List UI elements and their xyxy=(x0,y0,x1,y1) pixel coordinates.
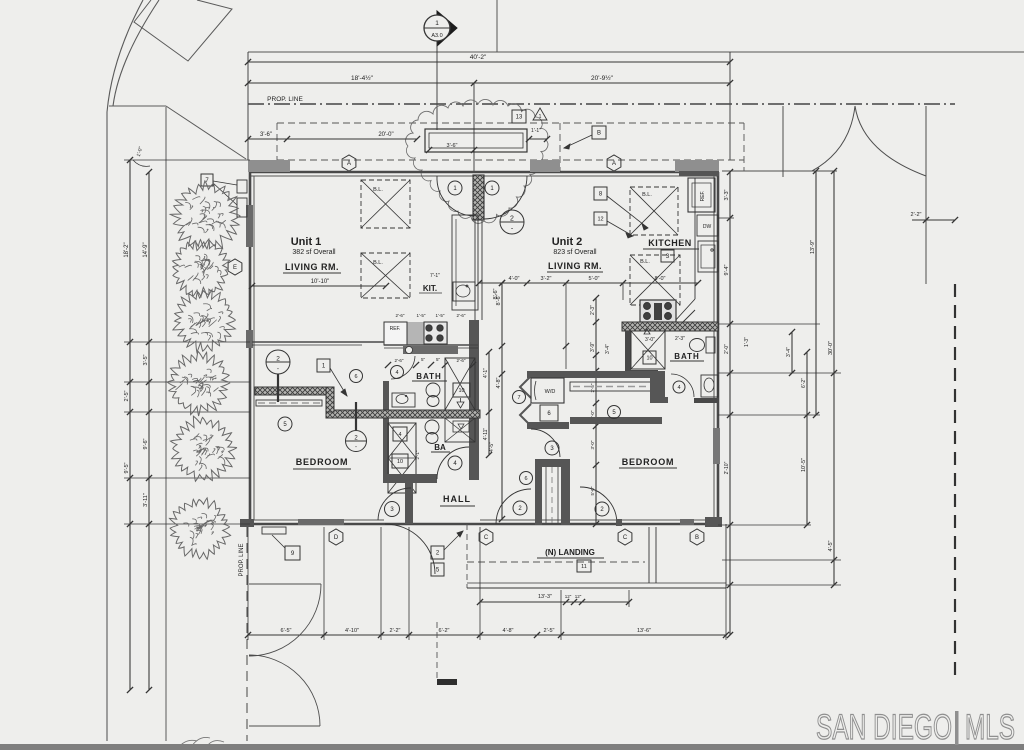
svg-text:3'-4": 3'-4" xyxy=(786,347,792,357)
kit1 counter band xyxy=(452,215,478,310)
right ext line 6 xyxy=(722,559,841,561)
callout leader 1 xyxy=(330,368,347,396)
roof overhang dashed top xyxy=(277,122,744,124)
svg-text:A: A xyxy=(347,161,351,167)
landing door arc2 xyxy=(580,487,617,524)
wd closet bottom wall xyxy=(527,422,569,429)
svg-text:3'-6": 3'-6" xyxy=(260,132,272,138)
gate door 2 xyxy=(249,725,320,727)
svg-text:3'-9": 3'-9" xyxy=(590,342,596,352)
right property dashed line xyxy=(954,284,956,680)
gate door 1 xyxy=(249,583,321,585)
circle 4 bath2 xyxy=(673,381,685,393)
svg-text:6: 6 xyxy=(524,476,527,482)
svg-text:6: 6 xyxy=(354,374,357,380)
svg-text:B: B xyxy=(597,131,601,137)
svg-text:BEDROOM: BEDROOM xyxy=(622,457,675,467)
circle 5 bedroom1 xyxy=(278,417,292,431)
circle 4 hall xyxy=(448,456,462,470)
wd box 6 xyxy=(540,405,558,421)
ba vbox xyxy=(453,421,469,432)
svg-text:1: 1 xyxy=(539,114,542,120)
svg-text:B.L.: B.L. xyxy=(642,192,652,198)
kitchen2 counter corner xyxy=(674,299,695,322)
bath2 door arc xyxy=(671,374,694,397)
canopy outer rect xyxy=(425,129,527,152)
bath1 tiny dim ticks xyxy=(385,362,391,368)
callout leader 8 xyxy=(607,196,648,228)
svg-text:3'-2": 3'-2" xyxy=(541,276,552,282)
hall door arc below xyxy=(385,524,435,574)
hall bedroom wall xyxy=(405,481,413,524)
svg-text:4'-5": 4'-5" xyxy=(489,442,495,452)
svg-text:KITCHEN: KITCHEN xyxy=(648,238,692,248)
svg-text:6'-2": 6'-2" xyxy=(801,378,807,388)
svg-text:3'-6": 3'-6" xyxy=(447,143,458,149)
ba xbox 2 xyxy=(445,418,475,442)
window sill bedroom1 xyxy=(262,527,286,534)
svg-text:3'-0": 3'-0" xyxy=(590,440,595,449)
wall bottom xyxy=(250,523,718,526)
svg-text:4: 4 xyxy=(398,432,401,438)
svg-text:8'-6": 8'-6" xyxy=(496,294,502,305)
bath1 sink xyxy=(392,393,415,407)
svg-text:5": 5" xyxy=(436,357,441,362)
wall top xyxy=(250,171,718,174)
svg-text:4'-1": 4'-1" xyxy=(483,368,489,378)
svg-text:4'-11": 4'-11" xyxy=(483,428,489,441)
svg-text:10: 10 xyxy=(458,388,464,394)
closet2 door lines xyxy=(545,467,547,523)
svg-text:4: 4 xyxy=(677,385,680,391)
gate arc 1 xyxy=(249,584,321,656)
bath2 closet xbox xyxy=(631,331,665,369)
svg-text:C: C xyxy=(484,535,489,541)
BL box 2 unit1 xyxy=(361,253,410,298)
svg-text:2'-6": 2'-6" xyxy=(396,313,405,318)
svg-text:A: A xyxy=(612,161,616,167)
svg-text:5'-0": 5'-0" xyxy=(590,486,595,495)
mid dim extension vertical xyxy=(473,83,475,172)
closet box 10 xyxy=(392,454,408,468)
kit1 sink xyxy=(453,282,475,301)
left ext line 5 xyxy=(124,523,250,525)
circle 6 hall2 xyxy=(520,472,533,485)
bath1 counter circle xyxy=(406,347,413,354)
kit1 stove xyxy=(424,322,447,344)
bath1 dim col xyxy=(488,352,490,455)
drape arc left xyxy=(812,106,855,171)
svg-text:(N) LANDING: (N) LANDING xyxy=(545,548,595,557)
svg-text:10'-5": 10'-5" xyxy=(801,458,807,472)
window jamb rects left xyxy=(237,180,247,193)
ba toilet xyxy=(425,420,439,434)
left dim line B xyxy=(148,172,150,690)
callout box 8 xyxy=(594,187,607,200)
right dim chain C xyxy=(806,352,808,525)
tree 5 xyxy=(171,416,238,481)
svg-text:40'-2": 40'-2" xyxy=(470,54,487,61)
svg-text:13'-3": 13'-3" xyxy=(538,594,552,600)
landing box 11 xyxy=(577,560,591,572)
svg-text:A3.0: A3.0 xyxy=(431,33,442,39)
svg-text:BA: BA xyxy=(434,443,446,452)
bottom dim row 2 xyxy=(480,601,629,603)
closet2 wall left xyxy=(535,459,542,525)
canopy inner rect xyxy=(429,133,523,148)
corner parallelogram structure xyxy=(134,0,232,61)
svg-text:SAN DIEGO: SAN DIEGO xyxy=(816,708,952,747)
bedroom1 door arc xyxy=(378,488,411,520)
bath2 vanity xyxy=(701,375,718,397)
north/scale bar xyxy=(437,679,457,685)
svg-text:1'-5": 1'-5" xyxy=(436,313,445,318)
svg-text:2: 2 xyxy=(510,216,514,223)
gate arc 2 xyxy=(249,655,320,726)
svg-text:B.L.: B.L. xyxy=(640,259,650,265)
svg-text:18'-2": 18'-2" xyxy=(124,242,130,257)
bath1 hatch mid wall xyxy=(326,410,480,418)
svg-text:20'-0": 20'-0" xyxy=(378,132,393,138)
svg-text:B.L.: B.L. xyxy=(373,260,383,266)
bedroom1 low wall band xyxy=(256,400,322,406)
right ext line 4 xyxy=(718,414,820,416)
roof overhang dashed right xyxy=(743,123,745,171)
svg-text:4: 4 xyxy=(395,370,398,376)
closet2 top wall xyxy=(537,459,570,467)
section marker circle A3.0 xyxy=(424,15,450,41)
revision cloud xyxy=(406,99,548,223)
wd closet chevron2 xyxy=(520,404,531,426)
door circle 4 bath1 xyxy=(391,366,404,379)
bedroom1 wall jog xyxy=(326,387,334,412)
right ext line 3 xyxy=(718,372,841,374)
BL box1 unit2 xyxy=(630,187,678,235)
party wall mid double xyxy=(474,220,476,320)
bottom ext b xyxy=(323,527,325,640)
svg-text:-: - xyxy=(277,366,279,373)
bath1 top wall xyxy=(403,346,458,354)
prop line top xyxy=(248,103,955,105)
svg-text:1'-5": 1'-5" xyxy=(417,313,426,318)
svg-text:2'-6": 2'-6" xyxy=(457,358,466,363)
svg-text:MLS: MLS xyxy=(965,708,1015,747)
svg-text:4'-0": 4'-0" xyxy=(509,276,520,282)
right dim chain B xyxy=(791,332,793,373)
bottom ext h xyxy=(628,590,630,607)
circle 3 hall2 xyxy=(545,441,559,455)
circle 5 corridor xyxy=(608,406,621,419)
party wall lower dark xyxy=(469,320,479,480)
window marker 1 right xyxy=(485,181,499,195)
svg-text:5": 5" xyxy=(421,357,426,362)
bath1 toilet xyxy=(426,383,440,397)
kitchen2 ref xyxy=(688,178,715,212)
callout box 1 living xyxy=(317,359,330,372)
bath2 closet box 10 xyxy=(643,351,656,364)
hex A right xyxy=(607,155,621,171)
svg-text:12": 12" xyxy=(565,594,572,599)
hex D xyxy=(329,529,343,545)
landing dashed xyxy=(467,561,645,563)
bedroom2 door arc xyxy=(531,429,560,457)
callout leader B xyxy=(564,135,592,148)
hex A left xyxy=(342,155,356,171)
neighbour vertical 3 xyxy=(925,106,927,284)
tree 2 xyxy=(173,239,230,298)
unit2 dim col 1 xyxy=(501,283,503,519)
landing outline xyxy=(466,524,468,588)
bottom ext c xyxy=(380,527,382,640)
svg-text:BEDROOM: BEDROOM xyxy=(296,457,349,467)
corridor right return xyxy=(650,397,668,403)
svg-text:10: 10 xyxy=(397,459,403,465)
svg-text:4'-8": 4'-8" xyxy=(503,628,514,634)
road kerb outer curve xyxy=(107,0,143,741)
scan edge strip xyxy=(0,744,1024,750)
kitchen2 wall dark seg xyxy=(679,171,719,176)
svg-text:14'-9": 14'-9" xyxy=(143,242,149,257)
svg-text:1'-3": 1'-3" xyxy=(744,337,750,347)
svg-text:18'-4½": 18'-4½" xyxy=(351,74,374,82)
bath1 left wall xyxy=(383,381,389,479)
svg-text:823 sf Overall: 823 sf Overall xyxy=(553,249,597,256)
drape arc right xyxy=(855,106,926,176)
tree 4 xyxy=(167,351,230,416)
window fill top-left xyxy=(248,160,290,172)
dim row canopy xyxy=(248,138,417,140)
landing door jamb xyxy=(616,519,622,526)
svg-text:2'-10": 2'-10" xyxy=(724,461,730,474)
svg-text:HALL: HALL xyxy=(443,494,471,504)
dim row unit2 xyxy=(479,282,698,284)
svg-text:6'-5": 6'-5" xyxy=(281,628,292,634)
kitchen2 counter line xyxy=(694,178,696,299)
scale bar tail xyxy=(436,622,438,679)
kitchen2 stove xyxy=(640,300,676,322)
bottom plant xyxy=(178,737,224,749)
svg-text:2'-2": 2'-2" xyxy=(911,212,922,218)
corridor track band xyxy=(570,382,658,391)
hex B xyxy=(690,529,704,545)
svg-text:4'-5": 4'-5" xyxy=(828,540,834,551)
svg-text:2'-1": 2'-1" xyxy=(415,450,420,459)
landing door arc1 xyxy=(496,489,531,524)
cut circle 2 bedroom1 xyxy=(346,431,367,452)
prop line vertical dashed xyxy=(246,527,248,741)
svg-text:Unit 2: Unit 2 xyxy=(552,236,583,248)
ba door arc xyxy=(437,447,469,479)
svg-text:REF.: REF. xyxy=(390,326,401,332)
svg-text:W/D: W/D xyxy=(545,389,556,395)
tree 1 xyxy=(170,181,240,251)
kit1 gray counter xyxy=(384,322,448,345)
bath2 closet marker xyxy=(644,329,650,334)
svg-text:6'-2": 6'-2" xyxy=(439,628,450,634)
landing step lines xyxy=(648,527,650,583)
svg-text:2'-3": 2'-3" xyxy=(675,336,685,342)
right ext line 5 xyxy=(718,524,811,526)
kit1 counter front xyxy=(384,344,478,346)
svg-text:3'-4": 3'-4" xyxy=(605,344,611,354)
driveway diagonal edge xyxy=(166,106,246,159)
svg-text:4'-8": 4'-8" xyxy=(496,377,502,388)
roof overhang dashed left xyxy=(276,123,278,160)
bath1 closet xbox xyxy=(388,423,416,493)
box 9 xyxy=(285,546,300,560)
svg-text:11: 11 xyxy=(581,564,587,570)
hex C1 xyxy=(479,529,493,545)
corridor bottom wall xyxy=(570,417,662,424)
bottom ext d xyxy=(408,527,410,640)
svg-text:C: C xyxy=(623,535,628,541)
bath1 shower xbox xyxy=(445,358,475,410)
BL box2 unit2 xyxy=(630,255,680,305)
svg-text:LIVING RM.: LIVING RM. xyxy=(285,262,339,272)
right dim extension vertical xyxy=(729,52,731,160)
left ext line 2 xyxy=(124,381,250,383)
cut circle 2 living1 xyxy=(266,350,290,374)
kerb horizontal join xyxy=(109,105,166,107)
entry door arc unit2 xyxy=(484,176,527,219)
wall right xyxy=(717,172,720,524)
svg-text:3'-5": 3'-5" xyxy=(143,354,149,365)
bedroom1 top wall hatched xyxy=(255,387,330,395)
neighbour ext line xyxy=(722,170,837,172)
hex C2 xyxy=(618,529,632,545)
bath2 bottom wall xyxy=(625,370,658,377)
corridor right wall xyxy=(650,371,665,402)
BL box 1 unit1 xyxy=(361,180,410,228)
section marker diamond xyxy=(437,11,457,46)
svg-text:20'-9½": 20'-9½" xyxy=(591,74,614,82)
svg-text:KIT.: KIT. xyxy=(423,284,437,293)
bottom ext a xyxy=(247,527,249,640)
svg-text:3'-0": 3'-0" xyxy=(645,337,655,343)
wall left xyxy=(249,172,252,524)
svg-text:2'-3": 2'-3" xyxy=(590,305,596,315)
box 7 window xyxy=(201,174,213,186)
hex E xyxy=(228,259,242,275)
svg-text:2'-2": 2'-2" xyxy=(390,628,401,634)
bath2 left wall xyxy=(625,331,631,373)
bottom ext e xyxy=(479,527,481,640)
window fill top-right xyxy=(675,160,719,172)
tree 6 xyxy=(170,498,231,559)
svg-text:PROP. LINE: PROP. LINE xyxy=(239,544,245,577)
left ext top xyxy=(124,159,250,161)
window fill right wall xyxy=(713,428,720,464)
callout box 13 xyxy=(512,110,526,123)
bottom ext f xyxy=(560,590,562,640)
roof overhang dashed mid xyxy=(559,123,561,171)
top center vertical line xyxy=(496,0,498,52)
svg-text:D: D xyxy=(334,535,339,541)
living1 divider wall xyxy=(252,341,384,343)
unit2 dim col 2 xyxy=(565,283,567,369)
bath2 wall below vanity xyxy=(694,398,718,403)
unit1 dim 10-10 xyxy=(252,285,386,287)
callout leader 12 xyxy=(607,221,633,236)
right dim chain A xyxy=(729,172,731,635)
right ext line 7 xyxy=(726,584,841,586)
svg-text:9'-6": 9'-6" xyxy=(143,438,149,449)
dim 40'-2" xyxy=(248,61,730,63)
svg-text:10'-10": 10'-10" xyxy=(311,279,330,285)
bath1 shower symbol xyxy=(457,402,464,408)
svg-text:10: 10 xyxy=(646,355,652,361)
svg-text:B.L.: B.L. xyxy=(373,187,383,193)
bath1 shower box 10 xyxy=(453,383,470,397)
bath1 door arc xyxy=(391,356,415,379)
bottom dim chain xyxy=(248,634,726,636)
svg-text:2'-6": 2'-6" xyxy=(395,358,404,363)
right dim chain D xyxy=(815,171,817,415)
top boundary line xyxy=(248,51,1024,53)
svg-text:9'-5": 9'-5" xyxy=(124,462,130,473)
kitchen2 dw xyxy=(697,215,718,236)
corridor top wall xyxy=(527,371,663,378)
svg-text:5'-0": 5'-0" xyxy=(589,276,600,282)
svg-text:-: - xyxy=(355,445,357,451)
svg-text:BATH: BATH xyxy=(674,352,700,361)
svg-text:1'-1": 1'-1" xyxy=(531,128,541,134)
right ext line 2 xyxy=(718,323,820,325)
window fill left wall xyxy=(246,205,253,247)
bath2 top wall hatched xyxy=(622,322,718,331)
unit2 dim col 3 xyxy=(595,298,597,524)
circle 7 wd xyxy=(513,391,526,404)
svg-text:2: 2 xyxy=(276,356,280,363)
svg-text:B: B xyxy=(695,535,699,541)
dim 18'-4 1/2" xyxy=(248,82,730,84)
svg-text:2'-0": 2'-0" xyxy=(724,344,730,354)
left dim extension vertical xyxy=(247,52,249,160)
bath2 toilet xyxy=(690,339,705,352)
roof overhang dashed bottom xyxy=(277,159,744,161)
callout box 3 xyxy=(661,250,674,262)
bottom ext g xyxy=(725,588,727,640)
closet box 4 xyxy=(393,427,407,441)
party wall hatched xyxy=(473,175,484,220)
svg-text:13: 13 xyxy=(516,115,523,121)
svg-text:LIVING RM.: LIVING RM. xyxy=(548,261,602,271)
kitchen2 sink xyxy=(698,241,718,272)
box 2 and 5 xyxy=(431,546,444,559)
svg-text:2'-6": 2'-6" xyxy=(457,313,466,318)
svg-text:4'-10": 4'-10" xyxy=(345,628,359,634)
kit1 ref xyxy=(384,322,407,345)
neighbour vertical 1 xyxy=(782,106,784,177)
wd box xyxy=(531,378,564,403)
left dim line A xyxy=(129,160,131,690)
svg-text:BATH: BATH xyxy=(416,372,442,381)
landing door circle 2 xyxy=(513,501,527,515)
closet2 wall right xyxy=(561,465,570,525)
section cut circle 2 unit2 xyxy=(500,210,524,234)
left ext line 1 xyxy=(124,341,250,343)
window marker 1 left xyxy=(448,181,462,195)
svg-text:1: 1 xyxy=(435,20,439,27)
svg-text:Unit 1: Unit 1 xyxy=(291,236,322,248)
road kerb inner curve xyxy=(113,0,159,106)
svg-text:3'-3": 3'-3" xyxy=(724,189,730,200)
circle 2 closet xyxy=(595,502,609,516)
callout box B xyxy=(592,126,606,139)
svg-text:2'-5": 2'-5" xyxy=(124,390,130,401)
svg-text:7: 7 xyxy=(517,395,520,401)
right ext line 1 xyxy=(718,217,734,219)
